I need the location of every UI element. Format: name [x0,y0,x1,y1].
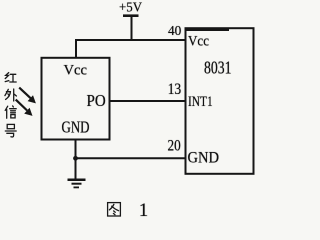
wire receiver GND down to ground [75,139,77,180]
wire from +5V down to rail [131,16,133,41]
svg-text:Vcc: Vcc [188,34,209,50]
svg-text:40: 40 [168,24,181,39]
annotation text 红 (hong) [5,73,16,82]
svg-text:PO: PO [87,91,106,110]
svg-text:GND: GND [188,150,220,167]
annotation text 号 (hao) [5,124,16,137]
annotation text 信 (xin) [5,106,16,118]
caption 图 (figure) [108,203,121,216]
svg-text:INT1: INT1 [188,94,213,110]
wire PO to INT1 pin 13 [109,100,186,102]
IC U1 8031 box [186,28,254,174]
infrared ray arrow 1 [19,88,36,104]
svg-text:13: 13 [168,81,182,98]
wire rail down into left box Vcc [75,39,77,58]
svg-text:8031: 8031 [204,58,232,78]
svg-text:Vcc: Vcc [64,63,88,79]
svg-text:GND: GND [62,118,90,137]
smudge on top border of 8031 box [186,28,229,31]
annotation text 外 (wai) [5,89,17,101]
junction dot [73,156,78,161]
svg-text:+5V: +5V [119,1,142,16]
infrared ray arrow 2 [16,100,33,116]
wire GND node to pin 20 [76,157,186,159]
svg-text:1: 1 [139,200,149,221]
ground symbol [68,180,86,188]
power terminal bar [123,14,139,17]
wire power rail to pin 40 [75,39,185,41]
svg-text:20: 20 [168,138,181,155]
receiver module box [42,58,110,140]
